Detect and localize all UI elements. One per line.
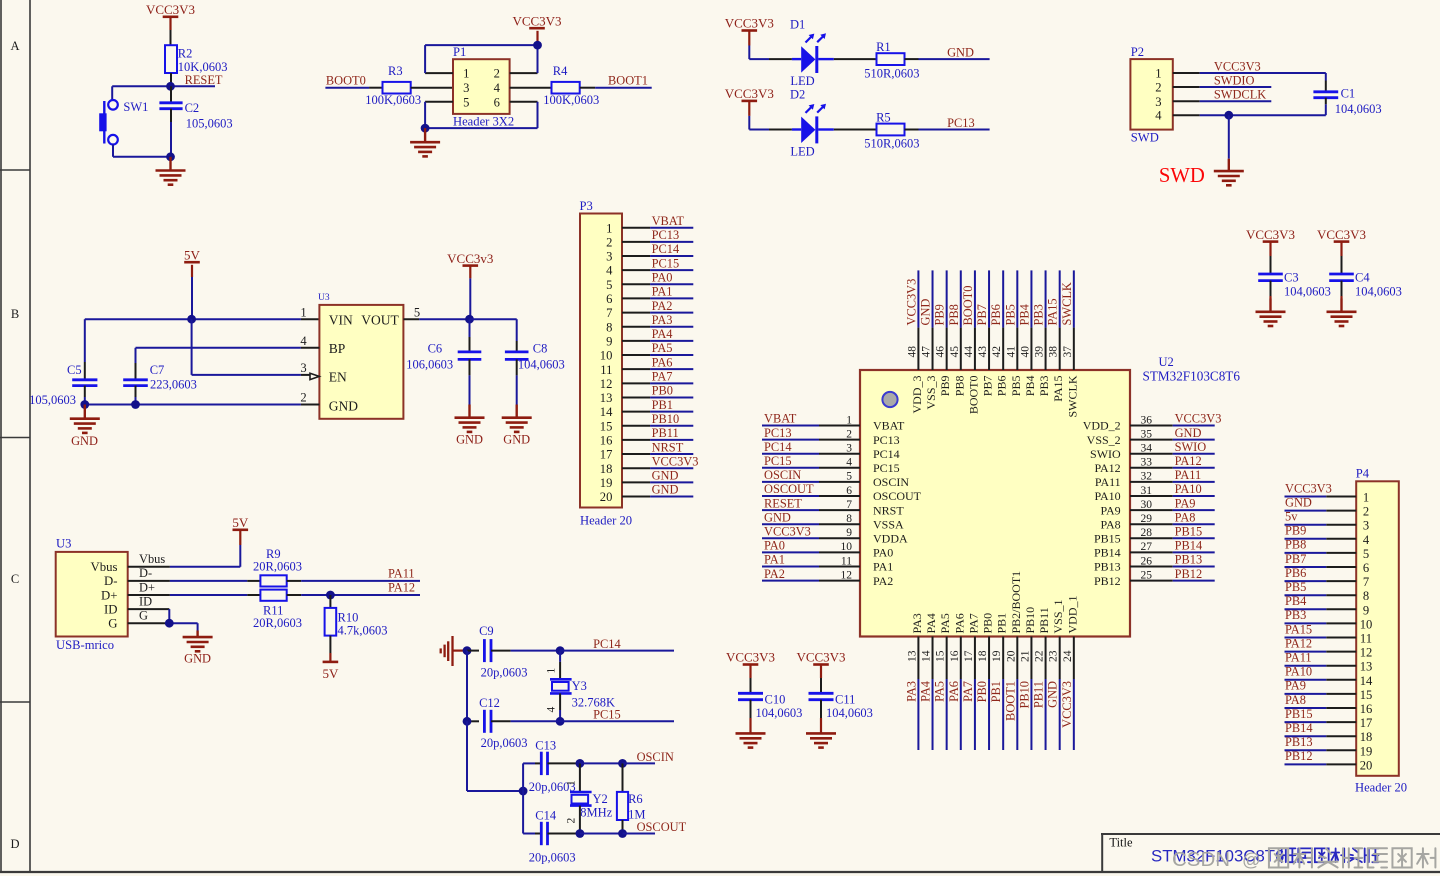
net label BOOT1 (U2 pin 20) — [1003, 681, 1017, 721]
net label SWCLK (U2 pin 37) — [1060, 282, 1074, 325]
wire P1 pin4 to R4 — [510, 87, 552, 89]
svg-text:PB5: PB5 — [1003, 304, 1017, 325]
label SWD (designator) — [1131, 131, 1159, 145]
ground (C8) — [502, 405, 532, 432]
pin 14 wire P4 (PA10) — [1285, 679, 1357, 681]
svg-text:1: 1 — [300, 305, 306, 319]
svg-text:4: 4 — [1363, 533, 1370, 547]
svg-text:PB11: PB11 — [1032, 681, 1046, 708]
net label PA7 (P3 pin 12) — [652, 370, 673, 384]
pin number 4 P3 — [606, 264, 613, 278]
net label SWDIO — [1214, 73, 1255, 87]
pin number 7 P3 — [606, 306, 612, 320]
net label VCC3V3 (U2 pin 36) — [1175, 412, 1222, 426]
pin name PA8 U2 — [1100, 517, 1120, 531]
net label PA9 (U2 pin 30) — [1175, 496, 1196, 510]
wire P1 pin2 to VCC3V3 — [510, 45, 538, 73]
net label PB9 (U2 pin 46) — [933, 304, 947, 325]
net label PB15 (P4 pin 17) — [1285, 707, 1313, 721]
pin 10 wire P3 (PA5) — [622, 354, 693, 356]
net label PA8 (P4 pin 16) — [1285, 693, 1306, 707]
svg-text:VSSA: VSSA — [873, 517, 904, 531]
capacitor C13 — [535, 752, 580, 775]
pin number 15 U2 — [935, 650, 947, 662]
pin number 1 P4 — [1363, 491, 1369, 505]
svg-text:PA5: PA5 — [938, 613, 952, 633]
wire U2 pin 41 (PB5) top — [1016, 270, 1018, 370]
net label VBAT (U2 pin 1) — [764, 412, 797, 426]
svg-text:12: 12 — [1360, 646, 1373, 660]
svg-text:PB13: PB13 — [1285, 735, 1313, 749]
label D2 LED — [790, 88, 815, 159]
svg-text:VCC3V3: VCC3V3 — [512, 13, 561, 28]
pin number 33 U2 — [1141, 457, 1153, 469]
svg-text:BOOT0: BOOT0 — [966, 376, 980, 415]
svg-text:PB0: PB0 — [981, 613, 995, 634]
svg-text:GND: GND — [1285, 495, 1312, 509]
svg-text:@: @ — [1242, 849, 1261, 870]
svg-text:21: 21 — [1019, 650, 1031, 662]
svg-text:37: 37 — [1062, 346, 1074, 358]
capacitor C12 — [467, 710, 560, 733]
svg-text:VCC3V3: VCC3V3 — [146, 2, 195, 17]
label D1 LED — [790, 17, 815, 88]
net label VCC3V3 (U2 pin 48) — [904, 279, 918, 326]
svg-text:PC14: PC14 — [764, 440, 792, 454]
svg-text:PB4: PB4 — [1023, 376, 1037, 397]
net label PA4 (P3 pin 9) — [652, 327, 673, 341]
header P2 (SWD) — [1130, 59, 1172, 130]
svg-text:104,0603: 104,0603 — [756, 706, 803, 720]
svg-text:PB4: PB4 — [1285, 594, 1306, 608]
wire U2 pin 39 (PB3) top — [1045, 270, 1047, 370]
label R10 value 4.7k,0603 — [338, 610, 388, 637]
pin number 7 U2 — [846, 499, 852, 511]
power VCC3V3 (reset circuit) — [146, 2, 195, 30]
wire PC15 — [560, 720, 674, 722]
svg-text:22: 22 — [1034, 650, 1046, 662]
svg-text:PA8: PA8 — [1100, 517, 1120, 531]
label C10 value 104,0603 — [756, 693, 803, 720]
svg-text:4: 4 — [846, 457, 852, 469]
svg-text:R6: R6 — [628, 792, 643, 806]
svg-text:20p,0603: 20p,0603 — [481, 736, 528, 750]
svg-text:19: 19 — [991, 650, 1003, 662]
wire Y2 pin1 — [579, 763, 581, 792]
net label PB13 (U2 pin 26) — [1175, 553, 1203, 567]
junction RESET node — [166, 82, 175, 91]
wire OSCIN label — [623, 762, 656, 764]
resistor R1 — [877, 53, 905, 65]
pin number 13 P4 — [1360, 660, 1373, 674]
pin number 46 U2 — [935, 346, 947, 358]
net label PB10 (P3 pin 15) — [652, 412, 680, 426]
svg-text:VCC3V3: VCC3V3 — [1285, 481, 1332, 495]
wire U2 pin 40 (PB4) top — [1030, 270, 1032, 370]
wire U2 pin 6 (OSCOUT) — [762, 495, 860, 497]
svg-text:GND: GND — [652, 483, 679, 497]
junction 8MHz loop node — [519, 787, 528, 796]
svg-text:510R,0603: 510R,0603 — [864, 137, 919, 151]
net label PB5 (P4 pin 8) — [1285, 580, 1306, 594]
pin number 13 U2 — [906, 650, 918, 662]
junction OSCOUT Y2 node — [576, 829, 585, 838]
svg-text:OSCIN: OSCIN — [637, 750, 674, 764]
pin number 11 U2 — [841, 555, 852, 567]
svg-text:PB15: PB15 — [1175, 525, 1203, 539]
svg-text:PB5: PB5 — [1009, 376, 1023, 397]
svg-text:PA6: PA6 — [952, 613, 966, 633]
svg-text:VOUT: VOUT — [361, 312, 399, 327]
junction crystal ground node — [463, 646, 472, 655]
net label OSCOUT — [637, 820, 687, 834]
svg-text:2: 2 — [1155, 81, 1161, 95]
label USB-mrico — [56, 638, 114, 652]
svg-text:2: 2 — [494, 67, 500, 81]
pin number 18 U2 — [977, 650, 989, 662]
pin number 19 P3 — [600, 476, 613, 490]
svg-text:PC13: PC13 — [652, 228, 680, 242]
wire PC14 — [560, 650, 674, 652]
wire U2 pin 28 (PB15) — [1130, 537, 1215, 539]
svg-text:5: 5 — [463, 96, 469, 110]
pin number 40 U2 — [1019, 346, 1031, 358]
svg-text:105,0603: 105,0603 — [186, 116, 233, 130]
svg-text:Vbus: Vbus — [90, 560, 117, 574]
svg-text:46: 46 — [935, 346, 947, 358]
net label PB11 (P3 pin 16) — [652, 426, 679, 440]
svg-text:C2: C2 — [185, 101, 200, 115]
capacitor C5 — [72, 319, 97, 404]
label R3 value 100K,0603 — [365, 64, 421, 107]
pin number 35 U2 — [1141, 428, 1153, 440]
power VCC3V3 (LED D2) — [725, 86, 774, 129]
svg-text:PA7: PA7 — [961, 681, 975, 702]
pin number 19 U2 — [991, 650, 1003, 662]
net label RESET (U2 pin 7) — [764, 496, 802, 510]
svg-text:PB0: PB0 — [652, 384, 673, 398]
svg-text:1: 1 — [846, 414, 852, 426]
svg-text:25: 25 — [1141, 569, 1153, 581]
pin name VDD_3 U2 — [910, 376, 924, 414]
pin number 14 U2 — [921, 650, 933, 662]
net label PA3 (P3 pin 8) — [652, 313, 673, 327]
pin name G (USB) — [108, 617, 117, 631]
svg-text:PA2: PA2 — [873, 574, 893, 588]
pin 18 wire P3 (VCC3V3) — [622, 467, 693, 469]
pin name PC14 U2 — [873, 447, 900, 461]
svg-text:PA6: PA6 — [652, 355, 673, 369]
svg-text:OSCIN: OSCIN — [764, 468, 801, 482]
pin number 25 U2 — [1141, 569, 1153, 581]
pin number 3 P4 — [1363, 519, 1369, 533]
LED D2 — [792, 104, 834, 144]
ground sideways (crystals) — [441, 636, 467, 666]
svg-text:5V: 5V — [232, 515, 249, 530]
svg-text:38: 38 — [1048, 346, 1060, 358]
svg-text:PA12: PA12 — [1094, 461, 1120, 475]
pin 12 wire P4 (PA12) — [1285, 651, 1357, 653]
net label PB5 (U2 pin 41) — [1003, 304, 1017, 325]
wire U2 pin 36 (VCC3V3) — [1130, 425, 1215, 427]
svg-text:2: 2 — [846, 428, 852, 440]
svg-text:14: 14 — [600, 405, 613, 419]
net label PA7 (U2 pin 17) — [961, 681, 975, 702]
svg-text:6: 6 — [846, 485, 852, 497]
svg-text:PC15: PC15 — [652, 256, 680, 270]
svg-text:PA0: PA0 — [873, 546, 893, 560]
junction VCC3v3 node — [465, 315, 474, 324]
pin 9 wire P4 (PB4) — [1285, 608, 1357, 610]
wire R11 to PA12 — [287, 594, 420, 596]
svg-text:PB8: PB8 — [1285, 538, 1306, 552]
svg-text:R5: R5 — [876, 110, 891, 124]
svg-text:PA2: PA2 — [764, 567, 785, 581]
pin 1 indicator dot — [882, 392, 897, 407]
svg-text:C5: C5 — [67, 363, 82, 377]
net label PA6 (P3 pin 11) — [652, 355, 673, 369]
svg-text:PB10: PB10 — [652, 412, 680, 426]
label P1 — [453, 45, 466, 59]
svg-text:PB10: PB10 — [1023, 607, 1037, 634]
pin 13 wire P3 (PB0) — [622, 396, 693, 398]
svg-text:PB6: PB6 — [995, 376, 1009, 397]
power VCC3V3 (C3) — [1246, 227, 1295, 274]
pin number 7 P4 — [1363, 575, 1369, 589]
svg-text:5V: 5V — [184, 247, 201, 262]
net label PA15 (P4 pin 11) — [1285, 622, 1312, 636]
pin number 41 U2 — [1005, 346, 1017, 358]
svg-text:2: 2 — [1363, 505, 1369, 519]
pin name VDD_1 U2 — [1065, 596, 1079, 634]
svg-text:PA12: PA12 — [1285, 636, 1312, 650]
regulator U3 body — [319, 305, 403, 419]
wire VOUT to VCC3v3 node — [403, 318, 469, 320]
wire R9 to PA11 — [287, 580, 420, 582]
svg-text:P2: P2 — [1131, 45, 1144, 59]
net label PB7 (U2 pin 43) — [975, 304, 989, 325]
pin 1 wire P3 (VBAT) — [622, 227, 693, 229]
pin name Vbus (USB) — [90, 560, 117, 574]
header P1 (Header 3X2) — [453, 59, 510, 114]
svg-text:VCC3V3: VCC3V3 — [1214, 59, 1261, 73]
pin name PA0 U2 — [873, 546, 893, 560]
wire U2 pin 1 (VBAT) — [762, 425, 860, 427]
svg-text:C3: C3 — [1284, 271, 1299, 285]
svg-text:3: 3 — [1155, 95, 1161, 109]
net label PA1 (U2 pin 11) — [764, 553, 785, 567]
pin name PA15 U2 — [1051, 376, 1065, 402]
wire EN from 5V node — [192, 319, 311, 375]
pin EN input triangle — [310, 373, 319, 379]
svg-text:PB7: PB7 — [981, 376, 995, 397]
junction OSCIN Y2 node — [576, 759, 585, 768]
svg-text:SWDIO: SWDIO — [1214, 73, 1255, 87]
net label PA2 (U2 pin 12) — [764, 567, 785, 581]
wire U2 pin 2 (PC13) — [762, 439, 860, 441]
svg-text:44: 44 — [963, 346, 975, 358]
svg-text:13: 13 — [1360, 660, 1373, 674]
svg-text:4: 4 — [300, 334, 307, 348]
svg-text:2: 2 — [300, 391, 306, 405]
svg-text:GND: GND — [764, 510, 791, 524]
pin 7 wire P3 (PA2) — [622, 312, 693, 314]
wire VOUT node to C8 — [470, 319, 517, 352]
label GND (C8) — [503, 433, 530, 447]
label STM32F103C8T6 — [1143, 369, 1241, 384]
wire P2 pin2 SWDIO — [1173, 86, 1272, 88]
svg-text:11: 11 — [1360, 632, 1372, 646]
pin name VDDA U2 — [873, 532, 908, 546]
net label GND (P3 pin 20) — [652, 483, 679, 497]
svg-text:8: 8 — [1363, 589, 1369, 603]
wire OSCIN rail — [580, 762, 623, 764]
pin 16 wire P3 (PB11) — [622, 439, 693, 441]
resistor R4 — [552, 82, 580, 94]
svg-text:PA9: PA9 — [1285, 679, 1306, 693]
pin 15 wire P3 (PB10) — [622, 425, 693, 427]
label Y2 value 8MHz — [580, 792, 612, 820]
net label PA15 (U2 pin 38) — [1046, 298, 1060, 325]
svg-text:PA0: PA0 — [652, 270, 673, 284]
svg-text:R3: R3 — [388, 64, 403, 78]
pin number 38 U2 — [1048, 346, 1060, 358]
pin number 4 BP — [300, 334, 307, 348]
svg-text:VDD_3: VDD_3 — [910, 376, 924, 414]
svg-text:1: 1 — [1363, 491, 1369, 505]
svg-text:VCC3V3: VCC3V3 — [725, 86, 774, 101]
svg-text:20p,0603: 20p,0603 — [481, 666, 528, 680]
pin name PB8 U2 — [952, 376, 966, 397]
wire U2 pin 9 (VCC3V3) — [762, 537, 860, 539]
wire GND rail (regulator) — [85, 404, 320, 406]
pin number 2 GND — [300, 391, 306, 405]
zone label B — [11, 307, 19, 321]
pin name PB10 U2 — [1023, 607, 1037, 634]
svg-text:EN: EN — [329, 370, 347, 385]
capacitor C3 — [1258, 274, 1283, 299]
pin number 2 P3 — [606, 235, 612, 249]
wire Vbus to 5V — [128, 566, 241, 568]
svg-text:36: 36 — [1141, 414, 1153, 426]
wire U2 pin 13 (PA3) bottom — [917, 637, 919, 751]
wire U2 pin 25 (PB12) — [1130, 580, 1215, 582]
wire U2 pin 21 (PB10) bottom — [1030, 637, 1032, 751]
net label PC13 (P3 pin 2) — [652, 228, 680, 242]
wire D- to R9 — [128, 580, 261, 582]
pin name PA1 U2 — [873, 560, 893, 574]
pin 10 wire P4 (PB3) — [1285, 622, 1357, 624]
wire VCC3V3 to LED D1 — [749, 58, 792, 60]
pin name PB4 U2 — [1023, 376, 1037, 397]
svg-text:PA11: PA11 — [388, 566, 415, 580]
pin name PC15 U2 — [873, 461, 900, 475]
pin name PB12 U2 — [1094, 574, 1121, 588]
net label PB15 (U2 pin 28) — [1175, 525, 1203, 539]
svg-text:17: 17 — [600, 448, 613, 462]
pin name PB3 U2 — [1037, 376, 1051, 397]
svg-text:VCC3V3: VCC3V3 — [1317, 227, 1366, 242]
resistor R10 — [325, 608, 337, 636]
net label GND (U2 pin 8) — [764, 510, 791, 524]
pin name VSSA U2 — [873, 517, 904, 531]
resistor R11 — [260, 590, 286, 601]
power 5V (pull-up, inverted) — [322, 662, 339, 681]
title block border — [1101, 834, 1440, 872]
svg-text:PB14: PB14 — [1285, 721, 1313, 735]
pin name VIN — [329, 312, 353, 327]
svg-text:5: 5 — [846, 471, 852, 483]
pin 5 wire P3 (PA0) — [622, 283, 693, 285]
label C3 value 104,0603 — [1284, 271, 1331, 299]
port label D+ — [139, 580, 155, 594]
svg-text:PA7: PA7 — [652, 370, 673, 384]
svg-text:20: 20 — [1360, 758, 1373, 772]
pin name PB13 U2 — [1094, 560, 1121, 574]
svg-text:SWD: SWD — [1159, 165, 1205, 187]
svg-text:VCC3V3: VCC3V3 — [1060, 681, 1074, 728]
svg-text:PB1: PB1 — [995, 613, 1009, 634]
pin number 8 U2 — [846, 513, 852, 525]
wire crystal ground rail down — [466, 651, 468, 722]
pin number 42 U2 — [991, 346, 1003, 358]
svg-text:8: 8 — [606, 320, 612, 334]
pin number 1 P3 — [606, 221, 612, 235]
svg-text:VBAT: VBAT — [873, 419, 905, 433]
pin 13 wire P4 (PA11) — [1285, 665, 1357, 667]
svg-text:PA3: PA3 — [910, 613, 924, 633]
wire U2 pin 47 (GND) top — [932, 270, 934, 370]
wire R1 to GND net — [905, 58, 990, 60]
pin number 6 U2 — [846, 485, 852, 497]
svg-text:5: 5 — [606, 278, 612, 292]
wire to R10 — [329, 595, 331, 608]
svg-text:P4: P4 — [1356, 467, 1370, 481]
svg-text:C4: C4 — [1355, 271, 1370, 285]
pin 5 wire P4 (PB8) — [1285, 552, 1357, 554]
junction PA12 node — [326, 591, 335, 600]
svg-text:PB13: PB13 — [1175, 553, 1203, 567]
net label PA4 (U2 pin 14) — [919, 681, 933, 702]
net label VCC3V3 (P3 pin 18) — [652, 454, 699, 468]
pin name PB5 U2 — [1009, 376, 1023, 397]
svg-text:47: 47 — [921, 346, 933, 358]
svg-text:PA10: PA10 — [1094, 489, 1120, 503]
net label GND (U2 pin 23) — [1046, 681, 1060, 708]
ground (C10) — [736, 733, 766, 747]
resistor R3 — [383, 82, 411, 94]
label P2 — [1131, 45, 1144, 59]
power VCC3V3 (C4) — [1317, 227, 1366, 274]
pin name PA6 U2 — [952, 613, 966, 633]
svg-text:GND: GND — [652, 469, 679, 483]
resistor R5 — [877, 124, 905, 136]
pin number 27 U2 — [1141, 541, 1153, 553]
pin name PA2 U2 — [873, 574, 893, 588]
svg-text:16: 16 — [949, 650, 961, 662]
pin number 1 Y3 — [546, 668, 558, 674]
pin 19 wire P4 (PB13) — [1285, 749, 1357, 751]
net label SWDCLK — [1214, 88, 1266, 102]
pin number 3 U2 — [846, 443, 852, 455]
svg-text:16: 16 — [1360, 702, 1373, 716]
net label PC15 (U2 pin 4) — [764, 454, 792, 468]
svg-text:PA11: PA11 — [1285, 651, 1312, 665]
pin 18 wire P4 (PB14) — [1285, 735, 1357, 737]
svg-text:SWD: SWD — [1131, 131, 1159, 145]
pin name SWIO U2 — [1090, 447, 1121, 461]
net label PC14 — [593, 637, 621, 651]
